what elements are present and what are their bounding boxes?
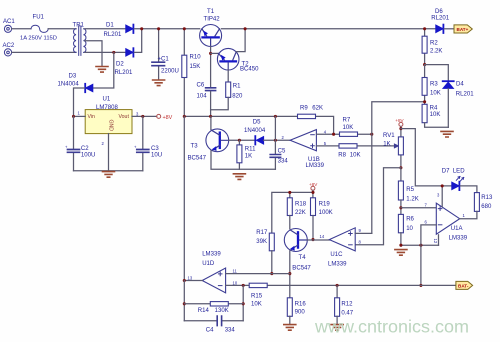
wire T2 emitter to rail [236, 29, 245, 52]
svg-text:2: 2 [282, 135, 285, 140]
resistor R8 10K [339, 144, 357, 148]
wire D5 to U1B output [264, 139, 291, 141]
svg-text:100K: 100K [319, 210, 333, 216]
svg-text:11: 11 [233, 269, 238, 274]
svg-text:U1: U1 [103, 97, 111, 103]
U1A power pin 3 [441, 186, 443, 206]
junction (drive rail / T1 base column) [209, 115, 212, 118]
svg-text:D4: D4 [456, 82, 464, 88]
wiper arrow [394, 144, 398, 148]
svg-text:C5: C5 [278, 149, 286, 155]
junction [140, 27, 143, 30]
diode D2 RL201 [126, 48, 134, 56]
svg-text:1: 1 [78, 111, 81, 116]
junction (D5 anode / C5 / drive rail) [274, 139, 277, 142]
ground (R12) [331, 325, 343, 331]
svg-text:R17: R17 [256, 230, 268, 236]
svg-text:D3: D3 [69, 74, 77, 80]
op-amp U1A LM339 [436, 203, 459, 234]
ground (regulator common) [103, 172, 115, 178]
resistor R10 15K [183, 29, 185, 117]
wire bottom rail (C2-C3) [74, 170, 143, 172]
junction (D7 anode / U1A V+ pin) [441, 184, 444, 187]
wire U1A inverting input down to BAT- line [421, 225, 436, 286]
wire T1 collector to rail right [222, 28, 436, 30]
svg-text:R12: R12 [341, 302, 353, 308]
wire drive rail [184, 116, 333, 134]
wire T1 base down [210, 46, 212, 87]
svg-text:RL201: RL201 [104, 32, 122, 38]
wire U1C non-inverting input to divider line [355, 232, 372, 234]
svg-text:100U: 100U [81, 153, 95, 159]
junction R2/R3/D4 [423, 63, 426, 66]
svg-text:C4: C4 [206, 327, 214, 333]
resistor R1 820 [226, 82, 231, 97]
junction (bias wire / R19 / +8V port) [311, 191, 314, 194]
svg-text:GND: GND [108, 120, 114, 132]
svg-text:U1A: U1A [451, 226, 464, 232]
feedback network R14/C4 [184, 281, 243, 321]
op-amp U1D LM339 [202, 268, 225, 293]
svg-text:R1: R1 [233, 83, 241, 89]
wire U1D non-inverting input (current sense) [226, 273, 290, 275]
junction (C1 / top rail) [157, 27, 160, 30]
resistor R15 10K [249, 283, 267, 287]
wire drive rail to D5 node [274, 116, 276, 140]
svg-text:+C1: +C1 [158, 57, 170, 63]
svg-text:RL201: RL201 [431, 16, 449, 22]
svg-text:BAT-: BAT- [458, 283, 469, 288]
wire D6 to BAT+ [444, 28, 454, 30]
svg-text:5: 5 [324, 141, 327, 146]
wire secondary bottom to D2 [85, 51, 126, 53]
transistor T2 BC450 [217, 48, 239, 70]
resistor R16 900 [287, 298, 292, 317]
svg-text:R3: R3 [430, 82, 438, 88]
svg-text:820: 820 [232, 94, 243, 100]
svg-text:D7: D7 [442, 168, 450, 174]
resistor R13 680 [474, 193, 479, 212]
svg-text:334: 334 [278, 158, 289, 164]
svg-text:3: 3 [437, 193, 440, 198]
svg-text:RV1: RV1 [383, 133, 395, 139]
svg-text:680: 680 [481, 204, 492, 210]
svg-text:LM7808: LM7808 [96, 105, 118, 111]
svg-text:U1C: U1C [330, 252, 343, 258]
junction (ground wire / U1A inverting column) [419, 244, 422, 247]
svg-text:Vout: Vout [119, 114, 130, 120]
junction (R17 / U1D non-inverting wire) [270, 272, 273, 275]
wire U1D inverting input / BAT- line [226, 284, 456, 286]
port BAT+ [454, 25, 472, 33]
svg-text:TR1: TR1 [73, 23, 85, 29]
svg-text:T3: T3 [191, 143, 199, 149]
wire mid tap to ground [85, 41, 102, 66]
diode D3 1N4004 [85, 84, 93, 92]
svg-text:R18: R18 [295, 201, 307, 207]
svg-text:D2: D2 [116, 62, 124, 68]
ground (R6) [395, 250, 407, 256]
svg-text:TIP42: TIP42 [204, 17, 221, 23]
svg-text:T4: T4 [299, 255, 307, 261]
svg-text:LM339: LM339 [328, 262, 347, 268]
terminal AC2 [4, 49, 11, 56]
wire R13 to U1A output [460, 211, 477, 218]
svg-text:R2: R2 [430, 41, 438, 47]
svg-text:Vin: Vin [88, 114, 96, 120]
resistor R6 10 [398, 214, 403, 232]
junction (drive rail / R10) [183, 115, 186, 118]
svg-text:10: 10 [406, 226, 413, 232]
svg-text:R9: R9 [300, 105, 308, 111]
svg-text:BC547: BC547 [188, 156, 207, 162]
capacitor C5 334 [274, 140, 276, 169]
svg-text:LM339: LM339 [202, 252, 221, 258]
transistor T1 TIP42 [200, 25, 222, 47]
wire drive rail down to U1D output [183, 116, 185, 280]
svg-text:RL201: RL201 [456, 91, 474, 97]
LED D7 [452, 182, 460, 190]
svg-text:104: 104 [197, 94, 208, 100]
diode D6 RL201 [436, 25, 444, 33]
svg-text:D1: D1 [106, 23, 114, 29]
power port +8V (T4 bias) [311, 186, 315, 190]
wire T2 collector [211, 52, 218, 54]
wire T3 base to D5 [229, 139, 255, 141]
resistor R17 39K [269, 233, 274, 251]
svg-text:R4: R4 [430, 106, 438, 112]
wire secondary top to D1 [85, 28, 126, 30]
wire T2 base to R1 [227, 70, 229, 82]
wire D3 cathode to U1 input [74, 88, 85, 116]
svg-text:+8V: +8V [395, 118, 404, 123]
svg-text:10: 10 [233, 280, 238, 285]
resistor R11 1K [238, 140, 240, 169]
svg-text:1K: 1K [383, 141, 390, 147]
op-amp U1B LM339 [290, 130, 316, 151]
svg-text:10K: 10K [350, 152, 361, 158]
svg-text:10K: 10K [430, 90, 441, 96]
diode D5 1N4004 [255, 136, 263, 144]
svg-text:BC547: BC547 [292, 266, 311, 272]
svg-text:10K: 10K [343, 125, 354, 131]
op-amp U1C LM339 [329, 228, 355, 251]
resistor R19 100K [311, 198, 316, 216]
wire R1 bottom to drive rail [211, 97, 229, 109]
capacitor C3 10U [142, 116, 144, 170]
svg-text:62K: 62K [312, 105, 323, 111]
svg-text:D5: D5 [253, 120, 261, 126]
svg-text:22K: 22K [295, 210, 306, 216]
wire D2 output up to top rail [134, 29, 141, 53]
wire R6 bottom / ground node [401, 233, 439, 245]
wire RV1 bottom reference to U1C inverting input [355, 168, 401, 245]
junction (R9 / U1B inverting input) [332, 133, 335, 136]
ground (T3 emitter) [233, 174, 245, 180]
svg-text:R8: R8 [338, 152, 346, 158]
svg-text:10K: 10K [430, 112, 441, 118]
resistor R7 10K [340, 132, 358, 136]
junction (R5 / R6 / U1A non-inverting input) [399, 206, 402, 209]
junction R5/R6 [400, 200, 402, 214]
svg-text:10K: 10K [251, 301, 262, 307]
svg-text:1A 250V 115D: 1A 250V 115D [20, 35, 57, 41]
junction (BAT- line / R12) [336, 284, 339, 287]
svg-text:2: 2 [102, 141, 105, 146]
ground (C1) [153, 80, 165, 86]
svg-text:39K: 39K [256, 239, 267, 245]
diode D4 RL201 (vertical) [443, 81, 454, 88]
diode D1 RL201 [126, 25, 134, 33]
svg-text:8: 8 [359, 240, 362, 245]
power port +8V (U1 output) [157, 114, 161, 118]
svg-text:LM339: LM339 [306, 163, 325, 169]
wire T4 emitter down to R16 [289, 251, 291, 298]
svg-text:FU1: FU1 [33, 15, 45, 21]
svg-text:1N4004: 1N4004 [58, 82, 80, 88]
wire fuse to transformer [48, 28, 76, 30]
junction (R14 left) [183, 302, 186, 305]
svg-text:R13: R13 [481, 195, 493, 201]
svg-text:BC450: BC450 [240, 67, 259, 73]
svg-text:+8V: +8V [309, 182, 318, 187]
junction (bottom tap to D3 branch) [112, 51, 115, 54]
svg-text:AC1: AC1 [3, 19, 15, 25]
junction (+8V port / LED feed) [399, 127, 402, 130]
svg-text:U1D: U1D [202, 261, 215, 267]
svg-text:6: 6 [425, 220, 428, 225]
svg-text:LED: LED [453, 168, 465, 174]
wire +8V over to LED branch [401, 129, 452, 186]
transformer TR1 [74, 26, 86, 56]
svg-text:R6: R6 [406, 217, 414, 223]
junction R3/R4/divider [423, 100, 426, 103]
svg-text:C3: C3 [151, 146, 159, 152]
junction (R14 right) [242, 302, 245, 305]
wire U1B non-inverting input to RV1 wiper [316, 145, 394, 147]
svg-text:15K: 15K [190, 64, 201, 70]
svg-text:D6: D6 [435, 9, 443, 15]
svg-text:R14: R14 [198, 308, 210, 314]
svg-text:+8V: +8V [163, 115, 173, 121]
divider sense line [372, 102, 425, 234]
svg-text:334: 334 [225, 327, 236, 333]
svg-text:AC2: AC2 [3, 43, 15, 49]
svg-text:9: 9 [359, 228, 362, 233]
svg-text:3: 3 [136, 112, 139, 117]
resistor R3 10K [424, 65, 426, 105]
wire R19 to T4 base node [312, 216, 314, 240]
svg-text:1K: 1K [245, 153, 252, 159]
svg-text:C2: C2 [81, 146, 89, 152]
junction (R7 / divider sense line) [370, 133, 373, 136]
potentiometer RV1 1K [399, 122, 403, 126]
7808 regulator U1 [85, 110, 132, 134]
svg-text:13: 13 [188, 275, 193, 280]
resistor R12 0.47 [336, 285, 338, 297]
wire T4 base to U1C output [307, 239, 329, 241]
svg-text:7: 7 [425, 203, 428, 208]
svg-text:RL201: RL201 [115, 70, 133, 76]
wire R18 to T4 collector [289, 216, 291, 229]
junction (U1 pin3 / C3) [141, 115, 144, 118]
transistor T4 BC547 [284, 229, 307, 252]
wire to U1A non-inverting input [401, 207, 436, 209]
svg-text:1: 1 [463, 213, 466, 218]
capacitor C6 104 [206, 88, 216, 91]
svg-text:2200U: 2200U [161, 69, 179, 75]
port BAT- [456, 281, 473, 289]
resistor R5 1.2K [400, 168, 402, 181]
junction (U1 pin1 / C2 / D3) [72, 115, 75, 118]
svg-text:R16: R16 [295, 301, 307, 307]
svg-text:1N4004: 1N4004 [244, 128, 266, 134]
ground (R16) [284, 325, 296, 331]
ground (transformer center tap) [96, 67, 108, 73]
junction (T2 emitter / top rail) [244, 27, 247, 30]
junction (U1A inverting input / BAT- line) [419, 284, 422, 287]
wire D1 cathode along top rail [134, 28, 199, 30]
svg-text:R10: R10 [190, 55, 202, 61]
svg-text:R15: R15 [251, 294, 263, 300]
junction (R6 / ground) [399, 244, 402, 247]
junction (R15 / feedback column) [242, 284, 245, 287]
junction (drive rail / D5 node) [274, 115, 277, 118]
wire bias rail [272, 190, 313, 233]
junction (T3 base / R11) [238, 139, 241, 142]
capacitor C2 100U [73, 116, 75, 170]
resistor R18 22K [287, 198, 292, 216]
junction RV1 bottom [399, 166, 402, 169]
wire AC2 to transformer [12, 51, 76, 53]
svg-text:900: 900 [295, 309, 306, 315]
svg-text:www.cntronics.com: www.cntronics.com [314, 317, 469, 337]
resistor R14 130K [184, 303, 243, 305]
svg-text:2.2K: 2.2K [430, 49, 442, 55]
ground (R4/D4) [441, 131, 453, 137]
capacitor C4 334 [184, 320, 243, 322]
junction (U1D output / drive column) [183, 279, 186, 282]
terminal AC1 [4, 25, 11, 32]
svg-text:LM339: LM339 [449, 235, 468, 241]
junction (R10 / top rail) [183, 27, 186, 30]
wire T3 emitter / ground rail [211, 151, 275, 169]
junction (R2 / top rail / D6) [423, 27, 426, 30]
wire bottom tap down to D3 [93, 52, 114, 88]
svg-text:R19: R19 [319, 201, 331, 207]
junction (bias wire / R18) [288, 191, 291, 194]
svg-text:14: 14 [320, 234, 325, 239]
junction (R19 / T4 base / U1C output) [311, 238, 314, 241]
fuse FU1 [31, 25, 48, 32]
wire U1D output [184, 280, 202, 282]
svg-text:1.2K: 1.2K [406, 196, 418, 202]
svg-text:R5: R5 [406, 187, 414, 193]
junction (T1 base / T2 collector) [209, 52, 212, 55]
capacitor C1 2200U [158, 29, 160, 80]
wire U1B inverting input [316, 133, 371, 135]
svg-text:R11: R11 [245, 147, 256, 153]
svg-text:T1: T1 [207, 9, 215, 15]
svg-text:BAT+: BAT+ [457, 27, 469, 32]
wire D7 to R13 [460, 186, 477, 193]
wire AC1 to fuse [12, 28, 31, 30]
svg-text:R7: R7 [343, 118, 351, 124]
U1A power pin 12 [438, 235, 440, 245]
transistor T3 BC547 [210, 116, 212, 129]
svg-text:130K: 130K [215, 308, 229, 314]
svg-text:12: 12 [433, 239, 438, 244]
resistor R2 2.2K [424, 29, 426, 65]
svg-text:C6: C6 [197, 83, 205, 89]
resistor R9 62K (feedback) [298, 114, 316, 118]
svg-text:10U: 10U [151, 153, 162, 159]
junction (T4 emitter / R16 / U1D non-inverting wire) [288, 272, 291, 275]
resistor R4 10K [422, 104, 427, 122]
